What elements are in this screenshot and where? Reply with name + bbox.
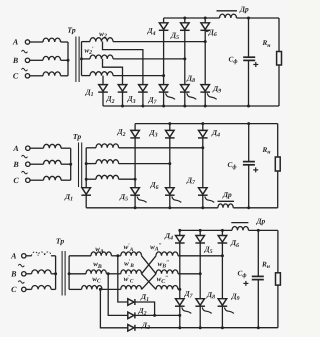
negative rail (top circuit) (103, 105, 279, 107)
node row2-D5 (top) (183, 57, 186, 60)
wire D5 to node (top) (184, 30, 186, 59)
svg-text:C: C (13, 176, 19, 185)
positive rail left of Dr (top circuit) (164, 17, 220, 19)
thyristor D9 (top) (200, 85, 216, 100)
wire rail stub to D5 (top) (184, 18, 186, 23)
thyristor D8 (bottom) (195, 299, 211, 314)
primary winding phase B (bottom) (32, 270, 56, 274)
label w''A (bottom) (150, 243, 162, 253)
node tap wB (bottom) (107, 272, 110, 275)
label Rn (middle) (261, 146, 271, 156)
node row1-leg (middle) (201, 146, 204, 149)
wire tap wA down to D1 (bottom) (118, 256, 128, 302)
svg-text:Тр: Тр (73, 132, 81, 141)
wire thyristor D7 to bottom rail (top) (163, 92, 165, 106)
terminal C (bottom circuit) (11, 285, 31, 294)
capacitor Cf (middle) (243, 162, 255, 165)
label Dr (top) (239, 5, 249, 14)
node bottom rail x=202.8 (middle) (201, 206, 204, 209)
node bottom rail x=163.6 (top) (162, 105, 165, 108)
wire thyristor D9 to bottom rail (bottom) (221, 306, 223, 327)
primary star bus (middle) (70, 148, 72, 180)
svg-text:B: B (12, 56, 19, 65)
terminal A (top circuit) (12, 38, 43, 47)
svg-text:C: C (13, 71, 19, 80)
wire capacitor to bottom rail (bottom) (257, 280, 259, 328)
wire rail stub to D5 (bottom) (199, 230, 201, 235)
label D5 (middle) (119, 192, 128, 203)
wire w2 row1 to D6 column (top) (113, 41, 205, 43)
diode D5 (top) (180, 23, 190, 31)
wire rail to capacitor Cf (middle) (248, 124, 250, 162)
terminal B (top circuit) (12, 56, 43, 65)
junction dot secondary bus (top) (80, 57, 83, 60)
node bottom rail x=184.8 (top) (183, 105, 186, 108)
thyristor D7 (middle) (198, 188, 214, 203)
wire thyristor D8 to bottom rail (bottom) (199, 306, 201, 327)
polarity + (top) (253, 62, 258, 67)
wire tap row2 to D2 (top) (103, 59, 123, 85)
wire D3 to node (middle) (169, 138, 171, 164)
node rail-D5 (top) (183, 17, 186, 20)
label D3 (middle) (148, 128, 157, 139)
wire D1 to connector (bottom) (135, 302, 155, 315)
wire thyristor D5 to bottom rail (middle) (134, 195, 136, 208)
node bottom rail x=135.1 (middle) (134, 206, 137, 209)
node top rail x=222.4 (bottom) (221, 229, 224, 232)
wire node to thyristor D5 (middle) (134, 179, 136, 188)
diode D6 (bottom) (218, 236, 228, 244)
resistor Rn (bottom) (276, 273, 281, 285)
polarity + (bottom) (243, 281, 248, 286)
label D8 (top) (186, 73, 195, 84)
choke Dr core bar (top) (217, 10, 238, 12)
winding wC (bottom) (69, 286, 121, 290)
primary winding phase A (bottom) (32, 252, 56, 256)
polarity + (middle) (253, 167, 258, 172)
wire D4 to node (bottom) (179, 243, 181, 289)
label D2 (middle) (116, 127, 125, 138)
label D7 (middle) (186, 176, 196, 187)
wire node to thyristor D9 (top) (204, 42, 206, 85)
label w2 (top) (99, 30, 107, 40)
diode D5 (bottom) (195, 236, 205, 244)
secondary bus (middle) (85, 148, 87, 188)
wire capacitor to bottom rail (top) (248, 60, 250, 106)
diode D2 (middle) (130, 130, 140, 138)
label D6 (middle) (149, 180, 158, 191)
diode D4 (middle) (198, 130, 208, 138)
node rail-cap (middle) (247, 122, 250, 125)
node D2 line to D7 leg (bottom) (178, 314, 181, 317)
label w''C (bottom) (157, 275, 169, 285)
primary winding phase 2 (middle transformer Tp) (44, 160, 71, 164)
primary star bus (bottom) (55, 256, 57, 290)
wire D6 to node (bottom) (221, 243, 223, 256)
wire rail to capacitor Cf (bottom) (257, 230, 259, 276)
wire D5 to node (bottom) (199, 243, 201, 274)
wire node to thyristor D7 (top) (163, 76, 165, 85)
wire D4 to node (middle) (202, 138, 204, 148)
node rail-D3 (middle) (168, 122, 171, 125)
node bottom rail cap (bottom) (257, 326, 260, 329)
secondary winding w2 row 1 (top) (82, 38, 114, 42)
choke Dr coil (middle) (218, 204, 233, 208)
label Tp (top) (67, 26, 75, 35)
node bottom rail x=142.9 (top) (141, 105, 144, 108)
wire rail to Rn (top) (278, 18, 280, 52)
wire node to thyristor D9 (bottom) (221, 256, 223, 299)
node D1-D2 join (bottom) (153, 314, 156, 317)
winding w'B (bottom) (121, 270, 142, 274)
diode D4 (top) (159, 23, 169, 31)
negative rail left part (middle) (86, 207, 218, 209)
label D2 (bottom) (137, 306, 146, 317)
positive rail right of Dr (top circuit) (237, 17, 280, 19)
label D5 (bottom) (203, 245, 212, 256)
label wB (bottom) (93, 260, 102, 270)
junction dot primary bus (top) (67, 59, 70, 62)
wire node to thyristor D8 (top) (184, 59, 186, 85)
label w'B (bottom) (124, 259, 134, 269)
zigzag crossover wires rows2-3 (bottom) (142, 274, 157, 290)
wire D2 to node (middle) (134, 138, 136, 179)
primary winding phase 2 (top transformer Tp) (43, 56, 68, 60)
primary winding phase 1 (middle transformer Tp) (44, 144, 71, 148)
wire D3 to bottom rail (top) (142, 92, 144, 106)
label D6 (top) (208, 28, 217, 39)
choke Dr coil (bottom) (232, 226, 249, 230)
label D2 (top) (105, 94, 114, 105)
label Tp (bottom) (56, 237, 64, 246)
wire capacitor to bottom rail (middle) (248, 165, 250, 208)
wire tap row3 to D1 (top) (102, 76, 104, 85)
wire row1 to D6 leg (bottom) (178, 255, 222, 257)
node bottom rail x=179.8 (bottom) (178, 326, 181, 329)
ac symbol ~ (middle, A-B) (22, 155, 28, 158)
wire rail stub to D4 (top) (163, 18, 165, 23)
label D1 (bottom) (140, 292, 149, 303)
primary winding phase 1 (top transformer Tp) (43, 38, 68, 42)
stray dash before D6 (top) (206, 31, 209, 33)
secondary winding row 2 (middle) (86, 160, 118, 164)
ac symbol ~ (bottom, A-B) (18, 264, 24, 267)
wire node to thyristor D6 (middle) (169, 164, 171, 188)
label Dr (bottom) (256, 216, 266, 225)
primary winding phase C (bottom) (32, 286, 56, 290)
wire node to thyristor D7 (middle) (202, 148, 204, 188)
label Rn (bottom) (261, 261, 271, 271)
capacitor Cf (top) (243, 57, 255, 60)
winding w''C (bottom) (156, 286, 178, 290)
node rail-D4 (middle) (201, 122, 204, 125)
winding w'C (bottom) (121, 286, 142, 290)
transformer Tp core (middle) (79, 143, 82, 188)
thyristor D9 (bottom) (218, 299, 234, 314)
wire D1 to bottom rail (middle) (85, 195, 87, 208)
label w2' (top) (84, 46, 94, 56)
node bottom rail x=205.2 (top) (204, 105, 207, 108)
label D3 (bottom) (141, 320, 150, 331)
transformer Tp core (top) (76, 37, 79, 83)
label Cf (bottom) (238, 269, 247, 279)
negative rail right part (middle) (233, 207, 278, 209)
wire node to thyristor D8 (bottom) (199, 274, 201, 299)
positive rail right of Dr (bottom circuit) (249, 229, 278, 231)
negative rail (bottom circuit) (135, 327, 278, 329)
diode D3 (top) (138, 85, 148, 93)
label D7 (top) (147, 95, 157, 106)
label D5 (top) (170, 31, 179, 42)
terminal A (middle circuit) (12, 144, 43, 153)
label wA (bottom) (95, 245, 104, 255)
label D4 (middle) (211, 128, 220, 139)
node top rail x=200.2 (bottom) (199, 229, 202, 232)
junction dot primary bus (middle) (69, 163, 72, 166)
diode D6 (top) (200, 23, 210, 31)
node bottom rail x=222.4 (bottom) (221, 326, 224, 329)
terminal C (top circuit) (13, 71, 43, 80)
junction dot primary bus (bottom) (54, 272, 57, 275)
label Tp (middle) (73, 132, 81, 141)
winding w''A (bottom) (156, 252, 178, 256)
node tap wA (bottom) (116, 254, 119, 257)
label w''B (bottom) (158, 260, 170, 270)
secondary winding w2 row 2 (top) (82, 55, 114, 59)
label D4 (top) (146, 26, 155, 37)
wire D1 to bottom rail (top) (102, 92, 104, 106)
node bottom rail x=200.2 (bottom) (199, 326, 202, 329)
wire rail stub to D4 (bottom) (179, 230, 181, 235)
wire rail to capacitor Cf (top) (248, 18, 250, 57)
wire thyristor D9 to bottom rail (top) (204, 92, 206, 106)
secondary winding row 1 (middle) (86, 144, 118, 148)
capacitor Cf (bottom) (252, 276, 264, 279)
diode D2 (bottom) (128, 312, 135, 319)
ac symbol ~ (top, B-C) (22, 68, 28, 71)
wire row3 to D2 leg (middle) (119, 178, 136, 180)
label D6 (bottom) (230, 238, 239, 249)
wire D6 to node (top) (204, 30, 206, 41)
svg-text:A: A (12, 38, 19, 47)
label Rn (top) (261, 39, 271, 49)
node top rail x=179.8 (bottom) (178, 229, 181, 232)
secondary bus (top) (81, 42, 83, 76)
positive rail (middle circuit) (135, 123, 278, 125)
thyristor D5 (middle) (130, 188, 146, 203)
transformer Tp core (bottom) (62, 251, 65, 296)
choke Dr core bar (middle) (218, 200, 235, 202)
wire thyristor D8 to bottom rail (top) (184, 92, 186, 106)
diode D3 (bottom) (128, 325, 135, 332)
wire Rn to bottom rail (top) (278, 65, 280, 106)
diode D1 (top) (98, 85, 108, 93)
node row2-leg (middle) (168, 162, 171, 165)
wire row2 to D5 leg (bottom) (178, 273, 200, 275)
resistor Rn (middle) (275, 157, 280, 171)
label D9 (bottom) (230, 292, 239, 303)
label D8 (bottom) (206, 290, 215, 301)
wire thyristor D6 to bottom rail (middle) (169, 195, 171, 208)
zigzag crossover wires rows1-2 (bottom) (142, 256, 157, 274)
svg-text:Др: Др (239, 5, 249, 14)
label w'A (bottom) (124, 243, 134, 253)
wire row1 to D4 leg (middle) (119, 147, 203, 149)
wire tap row1 to D3 (top) (103, 42, 143, 85)
secondary winding row 3 (middle) (86, 175, 118, 179)
choke Dr core bar (bottom) (231, 222, 248, 224)
node bottom rail x=169.8 (middle) (168, 206, 171, 209)
wire row2 to D3 leg (middle) (119, 163, 170, 165)
wire row3 to D4 leg (bottom) (178, 288, 180, 290)
thyristor D6 (middle) (165, 188, 181, 203)
label Cf (top) (229, 56, 238, 66)
winding wB (bottom) (69, 270, 121, 274)
terminal C (middle circuit) (13, 176, 43, 185)
node tap wC (bottom) (99, 288, 102, 291)
label D1 (middle) (64, 192, 73, 203)
resistor Rn (top) (277, 52, 282, 66)
label w'C (bottom) (124, 274, 134, 284)
ac symbol ~ (middle, B-C) (22, 171, 28, 174)
ac symbol ~ (bottom, B-C) (18, 281, 24, 284)
svg-text:C: C (11, 285, 17, 294)
thyristor D7 (bottom) (175, 299, 191, 314)
node row3-leg (middle) (134, 178, 137, 181)
wire Rn to bottom rail (bottom) (277, 285, 279, 328)
wire w2 row3 to D4 column (top) (113, 75, 164, 77)
diode D1 (middle) (81, 188, 91, 196)
terminal A (bottom circuit) (10, 251, 31, 260)
junction dot secondary bus (bottom) (68, 272, 71, 275)
wire rail stub to D2 (middle) (134, 124, 136, 131)
wire rail stub to D6 (bottom) (221, 230, 223, 235)
svg-text:A: A (12, 144, 19, 153)
node bottom rail x=122.5 (top) (121, 105, 124, 108)
label D7 (bottom) (183, 289, 193, 300)
wire Rn to bottom rail (middle) (277, 171, 279, 208)
wire rail to Rn (middle) (277, 124, 279, 157)
svg-text:Тр: Тр (67, 26, 75, 35)
node row2-leg2 (bottom) (199, 272, 202, 275)
label wC (bottom) (92, 275, 101, 285)
diode D2 (top) (118, 85, 128, 93)
svg-text:A: A (10, 251, 17, 260)
secondary winding w2 row 3 (top) (82, 72, 114, 76)
node bottom rail cap (middle) (247, 206, 250, 209)
positive rail left of Dr (bottom circuit) (180, 229, 232, 231)
svg-text:B: B (10, 269, 17, 278)
label D1 (top) (84, 87, 93, 98)
node bottom rail cap (top) (247, 105, 250, 108)
wire D2 to bottom rail (top) (122, 92, 124, 106)
node top rail cap (bottom) (257, 229, 260, 232)
wire w2 row2 to D5 column (top) (113, 58, 185, 60)
node row1-leg3 (bottom) (221, 254, 224, 257)
wire rail stub to D4 (middle) (202, 124, 204, 131)
ac symbol ~ (top, A-B) (22, 50, 28, 53)
wire D4 to node (top) (163, 30, 165, 75)
choke Dr coil (top) (220, 14, 237, 18)
terminal B (middle circuit) (12, 160, 43, 169)
label D3 (top) (126, 94, 135, 105)
wire rail stub to D3 (middle) (169, 124, 171, 131)
junction dot bus-row3-D1 (middle) (85, 178, 88, 181)
primary star bus (top) (67, 42, 69, 76)
node row3-leg1 (bottom) (178, 288, 181, 291)
wire node to thyristor D7 (bottom) (179, 289, 181, 298)
node rail-cap (top) (247, 17, 250, 20)
svg-text:Др: Др (222, 190, 232, 199)
wire rail to Rn (bottom) (277, 230, 279, 272)
winding wA (bottom) (69, 252, 121, 256)
secondary bus (bottom) (68, 256, 70, 290)
svg-text:B: B (12, 160, 19, 169)
label Dr (middle) (222, 190, 232, 199)
svg-text:Др: Др (256, 216, 266, 225)
diode D3 (middle) (165, 130, 175, 138)
wire thyristor D7 to bottom rail (middle) (202, 195, 204, 208)
wire tap wC down to D3 (bottom) (100, 289, 127, 327)
primary winding phase 3 (top transformer Tp) (43, 72, 68, 76)
node row3-D4 (top) (162, 74, 165, 77)
primary winding phase 3 (middle transformer Tp) (44, 176, 71, 180)
wire D2 to D7 leg (bottom) (135, 314, 180, 316)
label D4 (bottom) (164, 231, 173, 242)
junction dot secondary bus (middle) (85, 162, 88, 165)
thyristor D8 (top) (180, 85, 196, 100)
winding w''B (bottom) (156, 270, 178, 274)
wire tap wB down to D2 (bottom) (108, 274, 128, 316)
wire rail stub to D6 (top) (204, 18, 206, 23)
terminal B (bottom circuit) (10, 269, 31, 278)
label Cf (middle) (228, 161, 237, 171)
wire thyristor D7 to bottom rail (bottom) (179, 306, 181, 327)
diode D1 (bottom) (128, 299, 135, 306)
node rail-D6 (top) (204, 17, 207, 20)
winding w'A (bottom) (121, 252, 142, 256)
svg-text:Тр: Тр (56, 237, 64, 246)
node row1-D6 (top) (204, 40, 207, 43)
label D9 (top) (212, 84, 221, 95)
diode D4 (bottom) (175, 236, 185, 244)
thyristor D7 (top) (159, 85, 175, 100)
